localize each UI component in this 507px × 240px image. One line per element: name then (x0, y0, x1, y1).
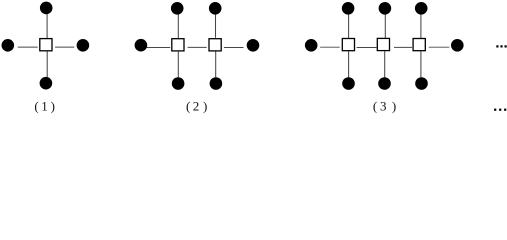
node fig3 bottom2 (378, 77, 391, 90)
svg-text:): ) (203, 98, 207, 113)
svg-text:): ) (392, 98, 396, 113)
svg-text:2: 2 (193, 98, 200, 113)
wire fig3 square3 to right circle (429, 46, 450, 48)
wire fig3 left circle to square1 (320, 46, 340, 48)
square node fig2 #1 (172, 39, 184, 51)
wire fig2 square1 to square2 (188, 46, 207, 48)
label (1) (34, 98, 55, 113)
ellipsis continuation (label row) (494, 109, 506, 111)
svg-text:(: ( (373, 98, 377, 113)
node fig2 right (247, 39, 260, 52)
wire fig3 square1 to square2 (357, 47, 377, 49)
square node fig3 #1 (342, 39, 354, 51)
svg-text:1: 1 (41, 98, 48, 113)
node fig3 top1 (342, 2, 355, 15)
node fig2 bottom1 (172, 77, 185, 90)
node fig1 top (40, 2, 53, 15)
node fig3 top3 (415, 2, 428, 15)
square node fig3 #3 (413, 39, 425, 51)
square node fig1 (40, 39, 52, 51)
wire fig1 top circle to square (46, 14, 48, 38)
ellipsis continuation (middle row) (496, 45, 506, 47)
node fig3 bottom1 (342, 77, 355, 90)
wire fig3 top3 (420, 14, 422, 38)
square node fig2 #2 (209, 39, 221, 51)
svg-text:3: 3 (380, 98, 387, 113)
wire fig2 square2 to right circle (224, 47, 244, 49)
svg-text:(: ( (34, 98, 38, 113)
node fig3 top2 (379, 2, 392, 15)
wire fig3 top2 (384, 15, 386, 38)
node fig2 left (135, 39, 148, 52)
wire fig1 square to right circle (55, 46, 74, 48)
node fig3 bottom3 (415, 77, 428, 90)
svg-text:): ) (51, 98, 55, 113)
label (3) (373, 98, 396, 113)
wire fig1 left circle to square (18, 46, 38, 48)
node fig1 bottom (40, 77, 53, 90)
wire fig1 square to bottom circle (46, 52, 48, 78)
node fig1 left (2, 39, 15, 52)
wire fig3 bottom2 (384, 51, 386, 77)
label (2) (186, 98, 207, 113)
node fig2 top2 (209, 2, 222, 15)
node fig3 right (451, 39, 464, 52)
wire fig2 top2 (215, 14, 217, 38)
node fig2 bottom2 (210, 77, 223, 90)
wire fig3 square2 to square3 (394, 46, 412, 48)
node fig1 right (77, 39, 90, 52)
wire fig3 top1 (348, 14, 350, 38)
wire fig3 bottom3 (420, 51, 422, 77)
node fig2 top1 (171, 2, 184, 15)
square node fig3 #2 (377, 38, 389, 50)
wire fig2 left circle to square1 (147, 47, 171, 49)
node fig3 left (305, 39, 318, 52)
wire fig2 bottom2 (215, 51, 217, 77)
svg-text:(: ( (186, 98, 190, 113)
wire fig2 top1 (177, 14, 179, 38)
wire fig2 bottom1 (177, 52, 179, 78)
wire fig3 bottom1 (348, 51, 350, 77)
